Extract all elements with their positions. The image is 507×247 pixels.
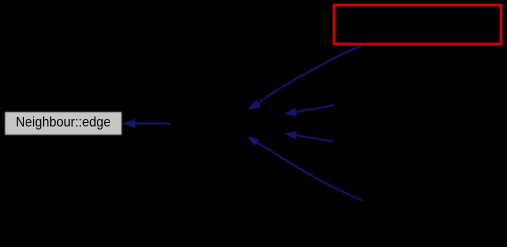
edge: hub -> Neighbour::edge (horizontal arrow) bbox=[123, 119, 172, 128]
edge: red truncated node -> hub (long curved arrow) bbox=[247, 46, 361, 110]
svg-text:Neighbour::edge: Neighbour::edge bbox=[16, 115, 111, 130]
edge: bottom node -> hub (long curved arrow from bottom right) bbox=[247, 136, 362, 200]
edge: right node B -> hub (lower short arrow) bbox=[284, 131, 333, 142]
node: truncated class (red border box, top right) bbox=[334, 5, 501, 44]
node Neighbour::edge (current node, grey fill) bbox=[5, 112, 122, 135]
edge: right node A -> hub (upper short arrow) bbox=[284, 105, 334, 116]
